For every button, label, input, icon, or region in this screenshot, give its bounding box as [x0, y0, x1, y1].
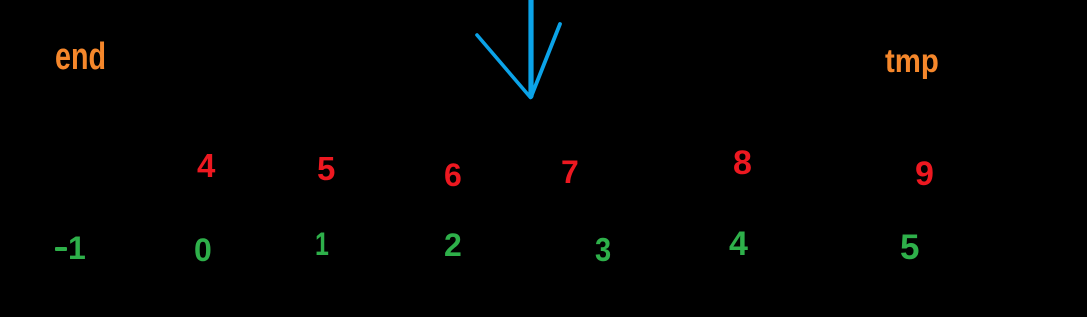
wire arrow right wing	[531, 24, 560, 97]
index 3 (green)	[595, 233, 611, 266]
index -1 digit (green)	[68, 232, 86, 264]
index 5 (green)	[900, 230, 919, 265]
label end (orange pointer name)	[55, 38, 106, 76]
value 7 (red)	[561, 156, 579, 188]
index -1 minus bar (green)	[55, 247, 68, 251]
wire arrow left wing	[477, 35, 531, 98]
value 6 (red)	[444, 159, 462, 191]
value 8 (red)	[733, 146, 752, 180]
arrow blue (tmp pointer arrow)	[460, 0, 580, 110]
label tmp (orange pointer name)	[885, 44, 939, 77]
wire arrow shaft	[528, 0, 533, 96]
index 2 (green)	[444, 229, 462, 261]
index 0 (green)	[194, 234, 212, 266]
value 5 (red)	[317, 152, 335, 185]
index 4 (green)	[729, 227, 748, 261]
value 9 (red)	[915, 157, 934, 191]
index 1 (green)	[315, 228, 329, 260]
value 4 (red)	[197, 149, 215, 182]
